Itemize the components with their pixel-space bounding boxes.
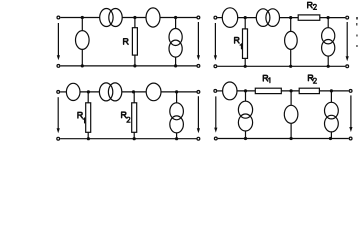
- wire bottom rail: [60, 138, 196, 140]
- arrow u2: [349, 95, 352, 132]
- node B1 junction top: [133, 16, 136, 19]
- source pair S4a (overlapping circles shunt left): [238, 101, 252, 131]
- terminal port1 top: [214, 16, 217, 19]
- transformer T1 (overlapping circles series): [100, 9, 123, 27]
- node A3 junction bottom: [87, 137, 90, 140]
- source I4 (shunt ellipse): [284, 105, 298, 123]
- node A4 junction bottom: [244, 137, 247, 140]
- terminal port1 top: [57, 91, 60, 94]
- wire shunt3 upper: [327, 18, 329, 28]
- arrow u1: [214, 23, 217, 60]
- node A3 junction top: [87, 90, 90, 93]
- wire shunt1 lower: [245, 131, 247, 139]
- source pair S3 (overlapping circles shunt): [170, 103, 184, 133]
- terminal port2 bottom: [346, 65, 349, 68]
- wire shunt2 upper: [290, 18, 292, 32]
- resistor R: [132, 28, 137, 55]
- arrow u1: [57, 97, 60, 133]
- wire shunt2 upper: [290, 91, 292, 105]
- source E3a (series ellipse left): [66, 83, 80, 100]
- terminal port1 top: [57, 16, 60, 19]
- terminal port1 bottom: [57, 65, 60, 68]
- label R2: [308, 75, 313, 81]
- arrow u1: [214, 96, 217, 132]
- source E2 (series ellipse): [222, 8, 237, 28]
- wire R1 upper: [87, 92, 89, 103]
- wire resistor upper: [134, 18, 136, 28]
- wire top rail mid2: [281, 90, 299, 92]
- wire top rail mid1: [122, 17, 146, 19]
- node A1 junction top: [81, 16, 84, 19]
- node C2 junction top: [327, 16, 330, 19]
- source E4 (series ellipse): [223, 82, 237, 100]
- source E3b (series ellipse right): [146, 83, 161, 101]
- wire R1 lower: [87, 132, 89, 138]
- node C1 junction bottom: [174, 64, 177, 67]
- wire bottom rail: [60, 65, 196, 67]
- wire shunt2 lower: [290, 50, 292, 67]
- wire top rail right: [319, 90, 348, 92]
- resistor R1 (vertical): [243, 29, 248, 59]
- terminal port2 top: [197, 16, 200, 19]
- terminal port2 top: [346, 16, 349, 19]
- node C4 junction bottom: [329, 137, 332, 140]
- resistor R2 (vertical): [132, 103, 137, 133]
- node A2 junction bottom: [244, 65, 247, 68]
- wire R1 upper: [244, 18, 246, 29]
- wire top rail mid2: [122, 91, 146, 93]
- wire bottom rail: [218, 138, 349, 140]
- resistor R1 (horizontal): [255, 88, 281, 93]
- node C1 junction top: [174, 16, 177, 19]
- wire R2 upper: [133, 92, 135, 103]
- terminal port1 bottom: [57, 137, 60, 140]
- terminal port2 bottom: [197, 137, 200, 140]
- wire resistor lower: [134, 55, 136, 66]
- node C3 junction top: [175, 90, 178, 93]
- label R2: [122, 112, 127, 118]
- wire top rail left: [60, 91, 66, 93]
- resistor R1 (vertical): [86, 103, 91, 133]
- wire shunt3 lower: [175, 57, 177, 66]
- node C4 junction top: [330, 89, 333, 92]
- node C2 junction bottom: [327, 65, 330, 68]
- source E1 (series ellipse): [146, 8, 160, 27]
- terminal port2 bottom: [197, 65, 200, 68]
- node B3 junction top: [132, 90, 135, 93]
- wire shunt1 upper: [245, 91, 247, 101]
- wire top rail right: [320, 17, 346, 19]
- node A1 junction bottom: [81, 64, 84, 67]
- wire top rail right: [161, 91, 197, 93]
- wire shunt2 lower: [290, 123, 292, 138]
- wire top rail mid2: [160, 17, 197, 19]
- node B2 junction top: [289, 16, 292, 19]
- wire shunt3 upper: [175, 18, 177, 29]
- transformer T3 (overlapping circles series): [99, 83, 121, 101]
- edge marks (cropped glyph fragments at right border): [356, 17, 358, 47]
- wire bottom rail: [217, 65, 345, 67]
- source pair S2 (overlapping circles shunt): [322, 28, 335, 56]
- wire top rail mid1: [237, 17, 256, 19]
- terminal port1 bottom: [214, 65, 217, 68]
- source I1 (shunt ellipse left): [76, 31, 90, 50]
- wire shunt3 lower: [176, 133, 178, 139]
- node B4 junction top: [290, 89, 293, 92]
- source I2 (shunt ellipse): [285, 31, 298, 49]
- node C3 junction bottom: [175, 137, 178, 140]
- wire top rail left: [217, 17, 222, 19]
- wire shunt1 lower: [81, 49, 83, 66]
- terminal port2 top: [349, 90, 352, 93]
- node B1 junction bottom: [133, 64, 136, 67]
- terminal port1 top: [214, 90, 217, 93]
- wire shunt1 upper: [81, 18, 83, 31]
- wire top rail mid1: [237, 90, 255, 92]
- resistor R2 (horizontal): [298, 15, 320, 20]
- label R: [124, 39, 129, 45]
- node B4 junction bottom: [290, 137, 293, 140]
- node A4 junction top: [244, 89, 247, 92]
- source pair S1 (overlapping circles shunt): [169, 29, 182, 58]
- node B2 junction bottom: [289, 65, 292, 68]
- label R1: [78, 112, 83, 118]
- terminal port2 bottom: [349, 137, 352, 140]
- wire R1 lower: [244, 58, 246, 66]
- wire shunt3 lower: [327, 56, 329, 66]
- label R1: [235, 38, 240, 44]
- node B3 junction bottom: [133, 137, 136, 140]
- arrow u2: [346, 22, 349, 61]
- arrow u1 (left port voltage): [57, 23, 60, 60]
- wire top rail mid2: [280, 17, 299, 19]
- wire top rail left: [60, 17, 99, 19]
- node A2 junction top: [244, 16, 247, 19]
- transformer T2 (overlapping circles series): [256, 9, 279, 27]
- source pair S4b (overlapping circles shunt right): [325, 102, 339, 132]
- wire shunt3 lower: [330, 132, 332, 139]
- wire top rail left: [217, 90, 223, 92]
- arrow u2 (right port voltage): [197, 22, 200, 60]
- terminal port1 bottom: [214, 137, 217, 140]
- label R1: [263, 75, 268, 81]
- resistor R2 (horizontal): [299, 88, 319, 93]
- terminal port2 top: [197, 91, 200, 94]
- label R2: [308, 2, 313, 8]
- wire top rail mid1: [80, 91, 99, 93]
- wire R2 lower: [133, 132, 135, 138]
- wire shunt3 upper: [176, 92, 178, 103]
- wire shunt3 upper: [330, 91, 332, 102]
- arrow u2: [197, 96, 200, 133]
